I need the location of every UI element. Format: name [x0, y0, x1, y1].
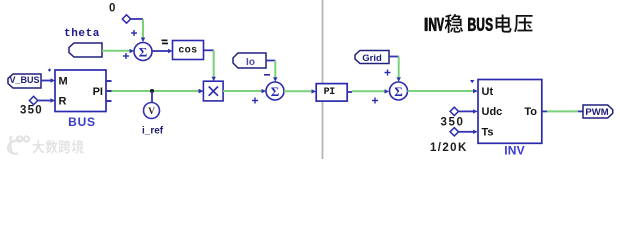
svg-text:Σ: Σ	[394, 84, 403, 99]
wire 350 to INV.Udc	[459, 109, 478, 113]
svg-text:M: M	[59, 76, 68, 88]
watermark logo	[8, 136, 29, 154]
subcircuit INV	[478, 80, 542, 158]
wire BUS.PI to multiplier	[112, 89, 204, 93]
watermark text	[33, 140, 84, 154]
svg-text:Σ: Σ	[139, 45, 148, 60]
wire 1/20K to INV.Ts	[459, 130, 478, 134]
svg-text:Grid: Grid	[362, 53, 382, 64]
svg-text:PI: PI	[93, 86, 103, 98]
wire 0 to sum1	[131, 19, 145, 42]
svg-text:Σ: Σ	[271, 84, 280, 99]
wire theta to sum1	[102, 49, 134, 53]
plus sign (sum3 left input)	[372, 98, 378, 104]
svg-text:To: To	[524, 106, 537, 118]
constant 0	[109, 3, 131, 24]
wire sum2 to PI	[284, 89, 316, 93]
svg-text:Ts: Ts	[482, 127, 494, 139]
svg-text:V: V	[148, 107, 155, 117]
multiplier	[199, 81, 223, 101]
label PWM	[583, 105, 613, 118]
PI controller	[316, 84, 347, 102]
plus sign (sum1 left input)	[123, 53, 129, 59]
page divider line	[322, 0, 324, 159]
svg-text:PWM: PWM	[585, 107, 608, 118]
svg-text:BUS: BUS	[68, 115, 96, 129]
svg-text:PI: PI	[324, 87, 336, 98]
junction dot	[150, 89, 154, 93]
plus sign (sum1 top input)	[131, 30, 137, 36]
svg-text:INV: INV	[504, 144, 525, 158]
pin marker triangle	[470, 80, 474, 83]
summer sum1	[134, 43, 152, 61]
minus sign (sum2 top input)	[264, 74, 270, 76]
label Grid	[355, 51, 389, 64]
wire multiplier to sum2	[223, 89, 266, 93]
svg-text:350: 350	[20, 105, 43, 117]
constant 350 (left)	[20, 96, 43, 116]
wire PI to sum3	[347, 89, 389, 93]
svg-text:Io: Io	[246, 57, 255, 68]
title INV稳BUS电压	[425, 18, 493, 31]
svg-text:V_BUS: V_BUS	[9, 75, 39, 85]
wire Io to sum2	[266, 61, 278, 82]
plus sign (sum2 left input)	[252, 98, 258, 104]
subcircuit BUS	[55, 70, 112, 129]
wire cos to multiplier	[204, 50, 216, 81]
wire sum3 to INV.Ut	[408, 89, 478, 93]
plus sign (sum3 top input)	[385, 70, 391, 76]
function block cos	[173, 41, 204, 60]
probe V (i_ref)	[142, 91, 164, 137]
wire 350 to BUS.R	[38, 98, 55, 102]
svg-text:cos: cos	[178, 44, 197, 55]
wire sum1 to cos	[152, 49, 173, 53]
label theta	[64, 28, 102, 57]
pin marker asterisk	[48, 69, 51, 72]
svg-text:Udc: Udc	[482, 106, 503, 118]
svg-text:350: 350	[441, 117, 465, 129]
svg-text:Ut: Ut	[482, 86, 494, 98]
label V_BUS	[8, 74, 41, 88]
label Io	[233, 53, 266, 68]
summer sum2	[266, 82, 284, 100]
wire Grid to sum3	[389, 57, 401, 82]
wire INV.To to PWM	[542, 110, 583, 112]
constant 350 (Udc)	[441, 107, 465, 128]
net label z	[162, 40, 169, 45]
svg-text:theta: theta	[64, 28, 100, 40]
svg-text:1/20K: 1/20K	[430, 142, 468, 154]
constant 1/20K (Ts)	[430, 128, 468, 154]
wire V_BUS to BUS.M	[41, 78, 55, 82]
summer sum3	[390, 82, 408, 100]
svg-text:i_ref: i_ref	[142, 126, 164, 137]
svg-text:0: 0	[109, 3, 117, 15]
svg-text:R: R	[59, 96, 67, 108]
